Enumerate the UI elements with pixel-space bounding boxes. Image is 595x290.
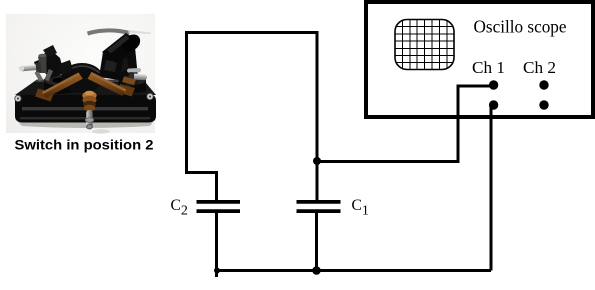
right screw terminal bbox=[129, 72, 147, 82]
wire: bottom bus bbox=[217, 269, 492, 272]
left upright assembly bbox=[38, 50, 64, 79]
base top surface bbox=[15, 80, 156, 96]
wire: C1 bottom lead bbox=[315, 212, 318, 271]
base corner screws bbox=[15, 95, 21, 101]
left screw terminal bbox=[19, 63, 42, 74]
terminal Ch1 lower bbox=[489, 100, 498, 109]
wire: step to C2 top bbox=[185, 173, 217, 202]
wire: C2 bottom lead bbox=[215, 212, 218, 277]
junction node A bbox=[313, 157, 321, 165]
switch S1 (photo of knife switch in position 2) bbox=[6, 14, 156, 134]
copper blade right bbox=[88, 72, 127, 96]
wire: Ch1 lower terminal down bbox=[490, 105, 493, 271]
svg-text:Switch in position 2: Switch in position 2 bbox=[15, 138, 154, 153]
handle grip bbox=[102, 33, 140, 63]
svg-text:Ch 1: Ch 1 bbox=[472, 58, 505, 77]
capacitor C2 plates bbox=[197, 202, 241, 211]
base front face bbox=[15, 95, 156, 123]
right post bbox=[119, 80, 147, 93]
oscilloscope screen graticule bbox=[395, 20, 455, 71]
handle hinge block bbox=[99, 52, 124, 80]
oscilloscope enclosure U1 bbox=[366, 2, 593, 117]
copper blade left bbox=[42, 73, 83, 99]
copper contact clip right bbox=[117, 84, 135, 97]
copper tab above right post bbox=[122, 77, 136, 86]
right pin upper bbox=[127, 68, 141, 73]
wire: node A to Ch1 upper terminal bbox=[317, 86, 493, 162]
svg-text:Oscillo scope: Oscillo scope bbox=[474, 17, 567, 37]
wire: C1 top lead bbox=[316, 162, 319, 202]
capacitor C1 plates bbox=[297, 202, 341, 211]
junction node B bbox=[312, 266, 321, 275]
left clip post bbox=[39, 55, 47, 73]
wire: switch loop top bbox=[187, 33, 318, 173]
junction node C bbox=[214, 268, 220, 274]
dark hub bbox=[61, 63, 103, 93]
svg-text:Ch 2: Ch 2 bbox=[523, 58, 556, 77]
brass pivot bbox=[82, 92, 96, 100]
svg-text:C2: C2 bbox=[171, 197, 188, 219]
left post bbox=[44, 80, 74, 94]
base shadow bbox=[18, 122, 153, 128]
terminal Ch2 lower bbox=[539, 100, 548, 109]
terminal Ch1 upper bbox=[489, 80, 498, 89]
terminal Ch2 upper bbox=[539, 80, 548, 89]
svg-text:C1: C1 bbox=[352, 197, 369, 219]
copper contact clip left bbox=[35, 89, 54, 102]
handle blur streak bbox=[87, 28, 130, 35]
bottom screw bbox=[86, 110, 92, 127]
right upright bbox=[116, 47, 139, 88]
